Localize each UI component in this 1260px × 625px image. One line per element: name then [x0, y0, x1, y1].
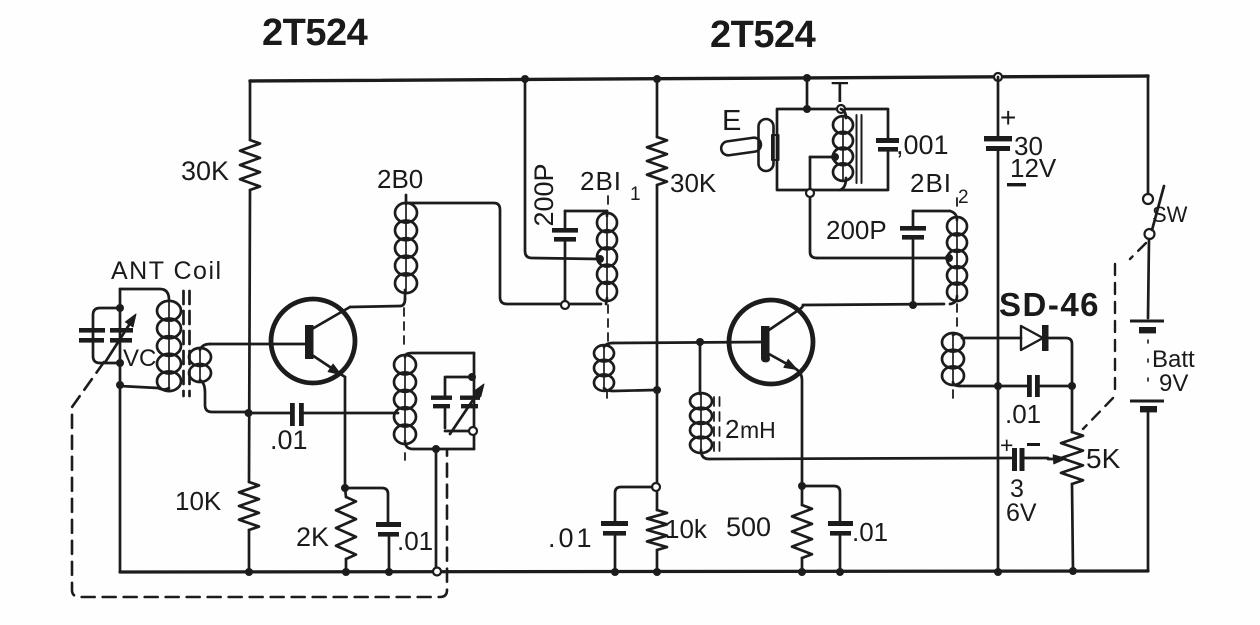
wire: L10 to diode anode — [962, 337, 1021, 340]
transformer T1 secondary bottom lead — [200, 380, 248, 412]
resistor R1 30K — [240, 140, 260, 190]
svg-text:2K: 2K — [296, 522, 329, 552]
capacitor C11 .01 plates — [1027, 375, 1040, 397]
transistor Q1 2T524 body — [271, 299, 355, 383]
inductor core dash between L3 and L4 — [403, 308, 405, 350]
transistor Q2 collector lead — [769, 305, 803, 330]
svg-text:500: 500 — [726, 512, 771, 542]
node: junction bottom rail / R6 — [798, 568, 806, 576]
wire: T2 tap vertical — [810, 157, 817, 258]
inductor L3 2B0 oscillator coil — [405, 204, 407, 292]
wire: 30uF top stub — [997, 77, 1000, 136]
mechanical link: VC gang dashed line — [72, 362, 447, 597]
svg-text:s: s — [762, 349, 769, 364]
node: junction bottom rail / R3 — [342, 568, 350, 576]
wire: C5 top stub — [564, 211, 567, 229]
node: ANT primary bottom junction — [116, 381, 124, 389]
svg-text:30K: 30K — [181, 156, 229, 186]
svg-text:.01: .01 — [1005, 399, 1041, 429]
capacitor C3 arrow — [450, 394, 477, 434]
wire: diode cathode to detector node — [1049, 338, 1072, 386]
transistor Q2 emitter lead — [769, 354, 796, 369]
wire: detector node to 5K — [1071, 386, 1074, 432]
svg-text:E: E — [722, 105, 741, 137]
node: junction collector / C8 — [909, 301, 917, 309]
wire: C1 to oscillator coil tap — [304, 412, 398, 415]
svg-text:ANT Coil: ANT Coil — [111, 257, 223, 285]
inductor L9 2BI2 primary — [956, 218, 958, 300]
node: junction L6 bottom / 30K-2 line — [653, 386, 661, 394]
node: open junction top rail / 30uF branch — [994, 73, 1002, 81]
transformer T1 core — [182, 291, 185, 396]
transistor Q2 2T524 body — [729, 300, 813, 384]
capacitor VC arrow — [106, 325, 129, 361]
wire: Q1 collector to L3 — [350, 299, 405, 307]
inductor L6 secondary top lead — [604, 343, 613, 347]
wire: trimmer middle branch bottom — [445, 409, 469, 431]
wire: 30K-2 lower segment — [656, 390, 659, 510]
wire: Q2 base wire — [613, 342, 763, 343]
inductor core dash 2BI2 — [953, 198, 957, 402]
node: junction 2BI1 coil tap — [596, 255, 604, 263]
inductor L10 top lead — [953, 334, 962, 338]
capacitor C8 200P plates — [900, 226, 926, 240]
node: open junction trimmer bottom-right — [469, 427, 477, 435]
wire: Q1 base wire — [210, 343, 305, 346]
potentiometer R7 5K — [1061, 432, 1083, 484]
earphone E nub — [772, 135, 779, 160]
resistor R6 500 — [801, 486, 804, 505]
switch SW lever — [1152, 186, 1164, 230]
wire: left rail lower segment — [248, 530, 251, 572]
potentiometer R7 wiper arrow — [1048, 458, 1055, 461]
inductor L9 primary bottom lead — [950, 296, 957, 304]
node A: base bias node junction — [245, 409, 253, 417]
wire: top supply rail — [250, 76, 1148, 81]
svg-text:10K: 10K — [175, 486, 222, 516]
capacitor C10 30uF plates — [984, 136, 1012, 151]
resistor R5 10k — [647, 510, 667, 550]
wire: top rail to 2BI1 tap — [525, 79, 599, 259]
node: open junction T2 tap exit — [806, 189, 814, 197]
wire: node A to C1 — [248, 412, 291, 415]
inductor L1 ANT coil primary — [168, 302, 170, 390]
node: junction bottom rail / C7 — [836, 568, 844, 576]
inductor L4 oscillator feedback coil — [404, 356, 406, 443]
resistor R4 30K — [647, 137, 667, 185]
wire: left rail mid segment — [249, 190, 250, 482]
inductor L3 2B0 bottom stub — [404, 290, 407, 299]
capacitor C9 ,001 plates — [876, 138, 899, 152]
node: junction C10 line / detector wire — [994, 382, 1002, 390]
wire: L4 bottom lead — [405, 441, 474, 449]
inductor L7 2mH choke — [700, 394, 702, 452]
svg-text:Batt: Batt — [1152, 346, 1195, 373]
svg-text:+: + — [1000, 432, 1013, 458]
svg-text:VC: VC — [123, 345, 156, 372]
transformer T1 ANT primary bottom lead — [120, 386, 169, 390]
node: trimmer top-right junction — [468, 373, 476, 381]
wire: T2 tap — [810, 156, 833, 159]
wire: 5K to ground rail — [1072, 484, 1073, 571]
resistor R2 10K — [239, 482, 259, 530]
wire: L10 bottom to C11 — [960, 385, 1027, 388]
wire: bottom ground rail — [120, 571, 1148, 572]
wire: C6 to ground rail — [614, 536, 617, 572]
wire: C8 top stub — [912, 211, 915, 226]
wire: C4 to ground rail — [388, 537, 391, 572]
svg-text:SW: SW — [1152, 202, 1188, 227]
inductor L5 2BI1 primary bottom lead — [606, 298, 607, 304]
node: junction T2 tap on coil — [831, 153, 839, 161]
svg-text:6V: 6V — [1006, 499, 1037, 527]
wire: 2B0 top to 2BI1 bottom — [406, 203, 601, 304]
capacitor C1 .01 plates — [290, 403, 304, 426]
inductor L9 2BI2 primary top lead — [950, 211, 957, 220]
battery BT1 cell2 short plate — [1140, 406, 1157, 412]
wire: 2mH bottom to volume line — [701, 450, 1011, 459]
capacitor C5 200P plates — [552, 228, 578, 242]
node: Q2 emitter node junction — [798, 482, 806, 490]
battery BT1 cell1 long plate — [1130, 320, 1164, 323]
node: open junction ground rail / L4 — [433, 568, 441, 576]
wire: right rail upper — [1147, 76, 1150, 194]
node: junction top rail / 30K-2 branch — [653, 75, 661, 83]
inductor L7 core dashes — [714, 397, 720, 452]
wire: Q2 collector to 2BI2 — [803, 304, 944, 305]
node: VC bottom junction — [116, 359, 124, 367]
transistor Q1 base bar — [305, 325, 314, 359]
battery BT1 cell1 short plate — [1139, 327, 1156, 333]
earphone E handle — [720, 137, 762, 156]
svg-text:5K: 5K — [1086, 443, 1121, 474]
node: junction top rail / transformer T branch — [803, 74, 811, 82]
switch SW top contact — [1143, 194, 1153, 204]
transistor Q1 emitter lead — [312, 355, 345, 377]
transformer T2 primary bottom lead — [840, 178, 846, 190]
node: open junction AVC node — [652, 483, 660, 491]
svg-text:2BI: 2BI — [910, 168, 952, 198]
transformer T1 secondary top lead — [200, 344, 210, 350]
wire: antenna-circuit vertical — [119, 289, 122, 572]
svg-text:T: T — [831, 77, 849, 109]
svg-text:200P: 200P — [529, 163, 559, 226]
wire: left rail upper segment — [249, 81, 252, 140]
node: Q1 emitter node junction — [341, 484, 349, 492]
node: junction bottom rail / C10 line — [994, 568, 1002, 576]
inductor L5 2BI1 primary top lead — [606, 211, 609, 216]
node: junction T box top — [803, 105, 811, 113]
node: junction 2BI2 coil tap — [945, 254, 953, 262]
inductor L3 2B0 top stub — [405, 195, 408, 204]
inductor core dash below L4 — [404, 453, 406, 464]
inductor L5 2BI1 primary — [606, 214, 608, 300]
inductor core dash 2BI1 — [607, 196, 608, 401]
transformer T1 ANT primary top lead — [120, 289, 169, 300]
wire: battery to bottom rail — [1147, 412, 1150, 571]
switch SW bottom contact — [1145, 229, 1155, 239]
wire: L4 bottom to ground rail — [435, 449, 438, 567]
svg-text:.01: .01 — [548, 523, 595, 553]
wire: AVC node to C6 — [615, 487, 652, 521]
node: open junction T primary top — [837, 105, 845, 113]
svg-text:.01: .01 — [270, 425, 308, 455]
transformer T2 core lines — [857, 115, 862, 183]
svg-text:,001: ,001 — [896, 130, 949, 160]
svg-text:200P: 200P — [826, 215, 887, 245]
mechanical link: switch to 5K dashed line — [1083, 243, 1146, 429]
svg-text:2: 2 — [725, 414, 739, 444]
svg-text:mH: mH — [740, 417, 776, 443]
transformer T2 primary top lead — [841, 109, 846, 118]
diode D1 SD-46 triangle — [1021, 326, 1043, 350]
svg-text:.01: .01 — [397, 526, 433, 556]
wire: tap line to 2BI2 tap — [817, 257, 948, 260]
svg-text:12V: 12V — [1010, 153, 1057, 183]
wire: Q1 emitter vertical — [344, 377, 347, 487]
svg-text:30K: 30K — [670, 168, 717, 198]
svg-text:2B0: 2B0 — [377, 164, 423, 194]
wire: trimmer middle branch top — [445, 377, 470, 395]
wire: 30K-2 mid segment — [656, 185, 659, 390]
inductor L10 detector secondary — [952, 334, 954, 384]
node: junction detector output — [1068, 382, 1076, 390]
svg-text:2T524: 2T524 — [262, 12, 368, 54]
svg-text:+: + — [1000, 102, 1016, 133]
wire: Q2 emitter vertical — [796, 369, 802, 486]
inductor L6 secondary bottom lead — [604, 388, 655, 391]
node: junction bottom rail / divider — [245, 568, 253, 576]
capacitor VC plates — [79, 328, 133, 343]
wire: C8 bottom stub — [912, 240, 915, 305]
wire: C11 to detector node — [1040, 385, 1072, 388]
svg-text:9V: 9V — [1159, 370, 1188, 397]
wire: base node to 2mH — [699, 342, 702, 394]
resistor R3 2K — [336, 497, 356, 559]
wire: 30K-2 upper segment — [656, 79, 659, 137]
battery BT1 cell2 long plate — [1130, 400, 1164, 403]
wire: 2BI2 box top — [913, 210, 950, 213]
wire: C7 to ground rail — [839, 536, 842, 572]
wire: 2BI1 box top — [565, 210, 607, 213]
svg-text:2: 2 — [958, 187, 969, 208]
node: junction top rail / 200P branch — [521, 75, 529, 83]
transistor Q1 collector lead — [312, 307, 350, 329]
svg-text:1: 1 — [630, 184, 641, 205]
node: open junction C5 / interstage wire — [561, 301, 569, 309]
wire: switch to battery — [1148, 239, 1149, 318]
svg-text:.01: .01 — [852, 517, 888, 547]
svg-text:10k: 10k — [665, 514, 708, 544]
node: junction Q2 base / 2mH — [696, 338, 704, 346]
transformer T2 box outline — [777, 109, 888, 190]
node: junction bottom rail / C4 — [385, 568, 393, 576]
wire: emitter node to C4 — [345, 488, 388, 522]
earphone E earpiece — [759, 119, 774, 171]
capacitor C3 oscillator trimmer plates — [460, 396, 480, 409]
wire: C12 to wiper arrow — [1024, 457, 1048, 460]
inductor L8 T2 primary — [842, 117, 844, 180]
capacitor C7 .01 plates — [828, 521, 853, 536]
svg-text:SD-46: SD-46 — [999, 286, 1100, 323]
capacitor C4 .01 plates — [376, 522, 401, 537]
capacitor C2 padder plates — [431, 396, 452, 409]
polarity -: C12 — [1027, 443, 1040, 446]
capacitor C12 3uF plates — [1012, 448, 1025, 471]
wire: top rail to T box — [806, 78, 809, 109]
inductor L2 ANT coil secondary — [199, 349, 201, 381]
wire: R5 to ground rail — [656, 550, 659, 572]
diode D1 cathode bar — [1042, 325, 1049, 351]
transistor Q2 base bar — [761, 326, 770, 359]
svg-text:2T524: 2T524 — [710, 14, 816, 56]
battery BT1 mid dashes — [1147, 340, 1149, 395]
inductor L6 2BI1 secondary — [603, 346, 605, 390]
node: L4 bottom junction — [432, 445, 440, 453]
polarity -: C10 — [1007, 183, 1026, 186]
wire: 30uF bottom line — [997, 151, 1000, 572]
inductor L10 bottom lead — [953, 382, 960, 386]
wire: trimmer box right side — [473, 353, 476, 449]
wire: VC left loop — [93, 308, 120, 363]
capacitor C6 .01 plates — [601, 521, 628, 536]
node: VC top junction — [116, 304, 124, 312]
wire: emitter node to C7 — [802, 486, 840, 521]
node: junction bottom rail / 5K — [1069, 567, 1077, 575]
svg-text:2BI: 2BI — [580, 166, 622, 196]
node: junction bottom rail / C6 — [611, 568, 619, 576]
wire: L4 top to trimmer box — [405, 353, 474, 357]
node: junction bottom rail / R5 — [653, 568, 661, 576]
wire: C5 bottom stub — [564, 242, 567, 301]
